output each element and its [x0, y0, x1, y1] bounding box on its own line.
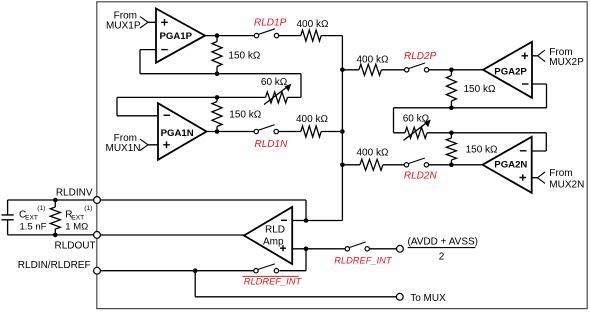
svg-text:(AVDD + AVSS): (AVDD + AVSS)	[408, 237, 478, 248]
svg-text:Amp: Amp	[263, 236, 284, 247]
svg-text:RLDIN/RLDREF: RLDIN/RLDREF	[18, 260, 91, 271]
svg-text:150 kΩ: 150 kΩ	[464, 84, 496, 95]
svg-text:RLDREF_INT: RLDREF_INT	[244, 277, 303, 287]
svg-text:MUX1N: MUX1N	[105, 143, 140, 154]
svg-text:150 kΩ: 150 kΩ	[466, 144, 498, 155]
svg-text:1.5 nF: 1.5 nF	[20, 221, 47, 232]
svg-text:RLD1N: RLD1N	[255, 139, 289, 150]
svg-text:PGA1P: PGA1P	[160, 31, 193, 42]
svg-text:MUX1P: MUX1P	[106, 21, 141, 32]
svg-text:RLDOUT: RLDOUT	[54, 241, 95, 252]
svg-text:400 kΩ: 400 kΩ	[297, 19, 329, 30]
svg-text:(1): (1)	[37, 205, 45, 212]
svg-text:RLD2N: RLD2N	[404, 170, 438, 181]
svg-text:MUX2P: MUX2P	[549, 57, 584, 68]
svg-text:RLD1P: RLD1P	[254, 18, 287, 29]
svg-text:To MUX: To MUX	[410, 293, 446, 304]
svg-text:150 kΩ: 150 kΩ	[228, 50, 260, 61]
svg-text:PGA2N: PGA2N	[494, 160, 527, 171]
svg-text:(1): (1)	[84, 205, 92, 212]
svg-text:MUX2N: MUX2N	[549, 180, 584, 191]
svg-text:PGA2P: PGA2P	[494, 67, 527, 78]
svg-text:60 kΩ: 60 kΩ	[403, 113, 430, 124]
svg-text:RLD: RLD	[265, 225, 285, 236]
svg-text:RLDINV: RLDINV	[56, 188, 93, 199]
svg-text:RLD2P: RLD2P	[404, 51, 437, 62]
svg-text:150 kΩ: 150 kΩ	[229, 110, 261, 121]
svg-text:1 MΩ: 1 MΩ	[65, 221, 88, 232]
svg-text:From: From	[549, 168, 572, 179]
svg-text:400 kΩ: 400 kΩ	[357, 147, 389, 158]
svg-text:60 kΩ: 60 kΩ	[261, 77, 288, 88]
svg-text:2: 2	[439, 251, 445, 262]
svg-text:RLDREF_INT: RLDREF_INT	[334, 256, 393, 266]
svg-text:400 kΩ: 400 kΩ	[357, 54, 389, 65]
svg-text:PGA1N: PGA1N	[161, 128, 194, 139]
svg-text:400 kΩ: 400 kΩ	[296, 114, 328, 125]
